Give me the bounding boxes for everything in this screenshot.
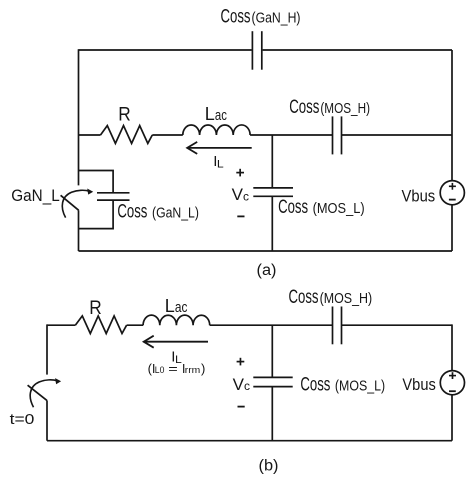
wire right rail upper (a) (451, 50, 453, 181)
svg-text:Vbus: Vbus (402, 186, 436, 205)
wire cap-to-right rail (b) (342, 324, 453, 326)
arrow IL (a) (187, 142, 252, 154)
source Vbus circle (a) (440, 181, 464, 205)
svg-text:L: L (217, 158, 224, 170)
wire left rail upper (a) (78, 49, 80, 185)
wire left rail lower (b) (46, 400, 48, 440)
svg-text:Coss: Coss (117, 201, 147, 222)
wire right rail upper (b) (451, 324, 453, 370)
plus sign (b) (237, 358, 245, 366)
svg-text:c: c (244, 379, 250, 393)
label Vc (a) (232, 185, 249, 204)
capacitor Coss(MOS_L) Vc (a) (253, 188, 293, 196)
wire Lac-to-cap (a) (250, 134, 332, 136)
resistor R (a) (101, 126, 153, 144)
svg-text:L: L (205, 104, 215, 124)
svg-text:ac: ac (215, 107, 227, 124)
wire mid rail left-to-R (a) (79, 134, 101, 136)
minus sign (b) (238, 406, 245, 408)
node branch upper (a) (271, 135, 273, 188)
wire right rail lower (b) (451, 395, 453, 441)
capacitor Coss(GaN_H) (252, 31, 261, 69)
node branch lower (a) (271, 196, 273, 251)
svg-text:(MOS_H): (MOS_H) (320, 100, 370, 117)
svg-text:(b): (b) (259, 458, 279, 475)
svg-text:c: c (243, 189, 249, 203)
svg-text:L: L (165, 296, 175, 316)
svg-text:rrm: rrm (185, 365, 201, 376)
plus sign (a) (236, 169, 244, 177)
label Vc (b) (233, 375, 250, 394)
switch GaN_L blade (61, 195, 79, 210)
svg-text:Coss: Coss (221, 7, 251, 28)
wire top rail left (a) (79, 49, 252, 51)
source Vbus circle (b) (440, 371, 464, 395)
wire R-to-Lac (b) (127, 324, 144, 326)
svg-text:(MOS_H): (MOS_H) (320, 290, 373, 307)
svg-text:Coss: Coss (289, 97, 319, 118)
label Coss(GaN_H) (221, 7, 301, 28)
wire bottom rail (b) (47, 440, 452, 442)
wire bottom rail (a) (79, 250, 453, 252)
wire top rail right (a) (263, 49, 452, 51)
wire cap-to-right rail (a) (342, 134, 453, 136)
arrow IL (b) (144, 336, 208, 348)
wire R-to-Lac (a) (152, 134, 183, 136)
node branch lower (b) (271, 387, 273, 441)
svg-text:ac: ac (175, 299, 188, 316)
wire Coss(GaN_L) branch top (79, 171, 114, 193)
label IL (a) (213, 153, 224, 170)
svg-text:Vbus: Vbus (402, 375, 435, 394)
label Lac (a) (205, 104, 227, 124)
svg-text:GaN_L: GaN_L (11, 186, 59, 205)
svg-text:R: R (118, 105, 131, 126)
capacitor Coss(MOS_H) (a) (333, 116, 342, 154)
wire Lac-to-cap (b) (210, 324, 333, 326)
wire left rail upper (b) (46, 324, 48, 374)
label Coss (GaN_L) (117, 201, 198, 222)
inductor Lac (a) (183, 125, 250, 135)
switch t=0 blade (28, 385, 47, 400)
svg-text:=: = (168, 361, 178, 376)
svg-text:(a): (a) (257, 262, 277, 279)
svg-text:Coss: Coss (300, 374, 330, 395)
capacitor Coss(GaN_L) (97, 193, 130, 200)
minus sign (a) (237, 215, 244, 217)
svg-text:(GaN_L): (GaN_L) (152, 204, 199, 221)
switch t=0 arrow (30, 378, 61, 407)
svg-text:): ) (201, 361, 205, 376)
label Coss (MOS_L) (b) (300, 374, 385, 395)
wire Coss(GaN_L) branch bottom (79, 200, 114, 229)
svg-text:V: V (233, 375, 245, 394)
svg-text:Coss: Coss (289, 287, 319, 308)
svg-text:R: R (89, 298, 102, 319)
capacitor Coss(MOS_L) Vc (b) (253, 377, 292, 386)
wire right rail lower (a) (451, 205, 453, 251)
svg-text:(GaN_H): (GaN_H) (252, 10, 301, 27)
label (IL0 = Irrm) (b) (148, 361, 206, 376)
resistor R (b) (75, 316, 126, 334)
label Coss(MOS_H) (a) (289, 97, 370, 118)
node branch upper (b) (271, 325, 273, 377)
label Coss(MOS_H) (b) (289, 287, 373, 308)
svg-text:t=0: t=0 (10, 411, 35, 428)
label IL (b) (171, 349, 182, 366)
svg-text:(MOS_L): (MOS_L) (335, 377, 385, 394)
svg-text:Coss: Coss (278, 197, 308, 218)
wire mid rail left (b) (47, 324, 75, 326)
svg-text:V: V (232, 185, 244, 204)
switch GaN_L arrow (62, 189, 93, 218)
svg-text:L0: L0 (155, 365, 165, 376)
wire left rail lower (a) (78, 210, 80, 251)
inductor Lac (b) (143, 315, 210, 325)
label Lac (b) (165, 296, 188, 316)
svg-text:(MOS_L): (MOS_L) (313, 200, 365, 217)
capacitor Coss(MOS_H) (b) (333, 307, 342, 345)
label Coss (MOS_L) (a) (278, 197, 365, 218)
